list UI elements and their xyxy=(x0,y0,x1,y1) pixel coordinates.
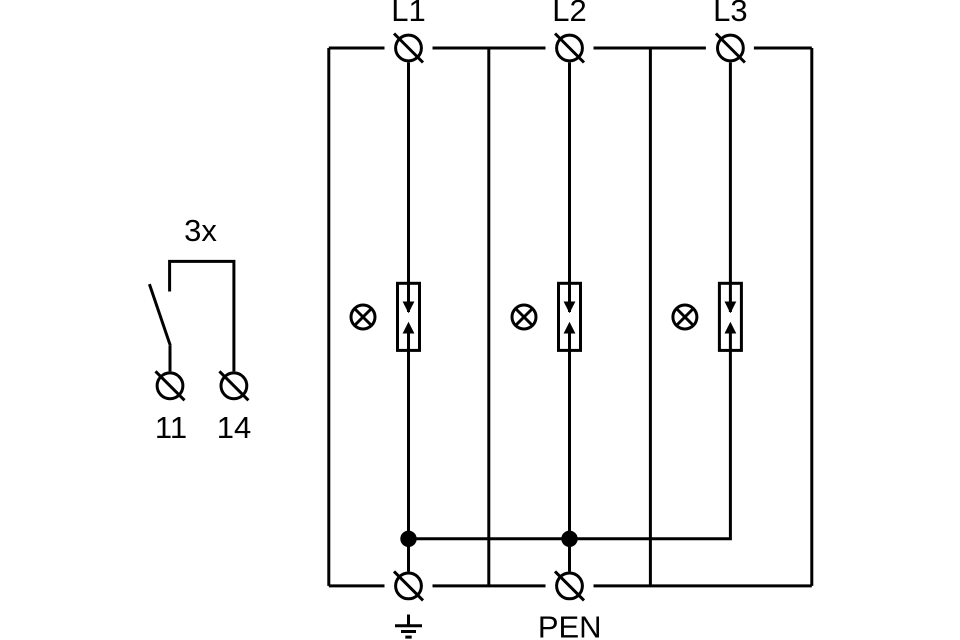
wire L3 lower and PEN bus xyxy=(409,334,731,539)
wire L3 upper xyxy=(729,62,732,312)
indicator lamp 2 xyxy=(512,305,536,329)
terminal 11 xyxy=(155,371,187,445)
svg-text:L3: L3 xyxy=(713,0,747,28)
terminal PEN bottom xyxy=(538,571,602,640)
divider wire 1 xyxy=(487,48,490,586)
svg-text:L2: L2 xyxy=(552,0,586,28)
svg-text:L1: L1 xyxy=(391,0,425,28)
svg-text:14: 14 xyxy=(217,410,251,445)
top bus wire segments xyxy=(329,47,812,50)
switch contact S1 blade xyxy=(149,284,170,371)
svg-text:3x: 3x xyxy=(184,213,217,248)
switch bracket wire xyxy=(170,261,234,371)
terminal L1 xyxy=(391,0,425,63)
junction node 2 xyxy=(561,531,577,547)
bottom border wire segments xyxy=(329,584,812,587)
wire L1 upper xyxy=(407,62,410,312)
junction node 1 xyxy=(400,531,416,547)
svg-text:11: 11 xyxy=(155,410,187,445)
indicator lamp 1 xyxy=(351,305,375,329)
wire L2 upper xyxy=(568,62,571,312)
wire L2 lower xyxy=(568,334,571,572)
terminal L2 xyxy=(552,0,586,63)
terminal 14 xyxy=(217,371,251,445)
surge arrester 2 xyxy=(559,283,581,350)
ground symbol xyxy=(395,615,422,638)
surge arrester 3 xyxy=(719,283,741,350)
label 3x xyxy=(184,213,217,248)
wire L1 lower xyxy=(407,334,410,572)
enclosure right border wire xyxy=(810,48,813,586)
divider wire 2 xyxy=(649,48,652,586)
terminal L3 xyxy=(713,0,747,63)
svg-text:PEN: PEN xyxy=(538,610,602,640)
enclosure left border wire xyxy=(327,48,330,586)
indicator lamp 3 xyxy=(673,305,697,329)
terminal earth bottom xyxy=(394,571,423,600)
surge arrester 1 xyxy=(398,283,420,350)
